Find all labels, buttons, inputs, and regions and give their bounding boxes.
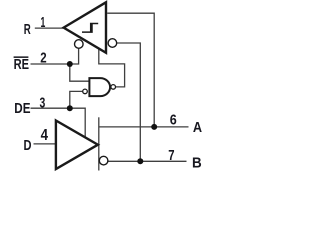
svg-text:DE: DE bbox=[14, 101, 30, 117]
svg-text:3: 3 bbox=[40, 95, 46, 112]
svg-text:B: B bbox=[192, 155, 202, 171]
svg-text:2: 2 bbox=[40, 49, 46, 66]
svg-text:4: 4 bbox=[41, 127, 49, 144]
svg-text:7: 7 bbox=[168, 148, 174, 164]
svg-text:1: 1 bbox=[41, 14, 46, 31]
svg-text:D: D bbox=[24, 138, 32, 154]
svg-text:R: R bbox=[24, 22, 31, 38]
svg-text:6: 6 bbox=[170, 112, 177, 128]
svg-text:A: A bbox=[193, 120, 203, 136]
svg-text:RE: RE bbox=[14, 57, 30, 73]
